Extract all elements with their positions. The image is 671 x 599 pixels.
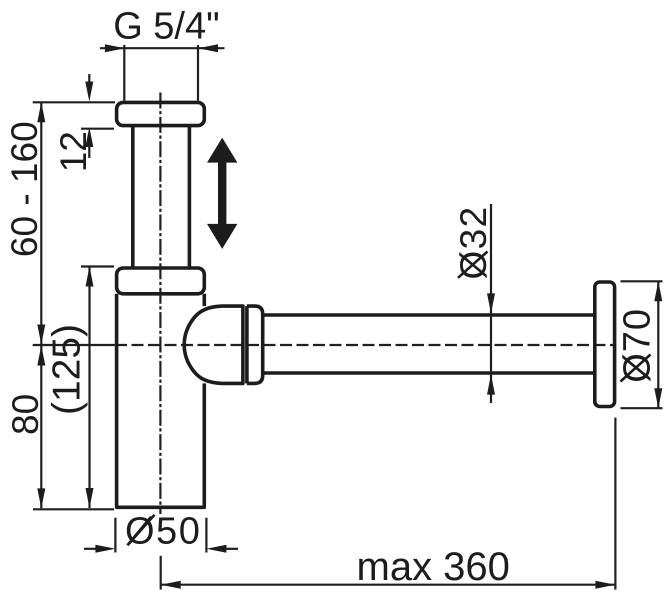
extension line G 5/4 right — [197, 45, 199, 101]
chained dimension line 60-160 / 80 — [37, 102, 45, 508]
svg-text:Ø70: Ø70 — [617, 308, 659, 383]
dimension 12 upper arrow — [85, 74, 93, 102]
dimension line Ø70 — [654, 281, 662, 408]
elbow nut inner line — [245, 306, 249, 383]
extension line G 5/4 left — [123, 45, 125, 101]
dimension line max 360 — [161, 581, 616, 589]
vertical centerline of riser and bottle — [159, 93, 161, 515]
extension line bottle centerline — [160, 556, 162, 590]
extension line at pipe axis — [33, 344, 115, 346]
bottle collar — [117, 268, 205, 294]
adjustment double arrow — [207, 138, 237, 249]
dimension text 12 — [53, 131, 94, 172]
extension line bottle left — [114, 518, 116, 553]
dimension line Ø50 right — [206, 545, 238, 553]
dimension line (125) — [86, 267, 94, 509]
dimension text max 360 — [357, 545, 510, 589]
svg-text:max 360: max 360 — [357, 545, 510, 589]
svg-text:80: 80 — [5, 394, 46, 435]
outlet pipe — [263, 315, 594, 373]
svg-text:60 - 160: 60 - 160 — [4, 121, 45, 257]
horizontal centerline of outlet pipe — [115, 344, 616, 346]
dimension text G 5/4" — [113, 6, 219, 48]
dimension line Ø32 — [487, 204, 495, 403]
svg-text:(125): (125) — [46, 324, 89, 415]
dimension text 60 - 160 — [4, 121, 45, 257]
dimension line G 5/4 — [100, 44, 225, 52]
wall flange (rosette) — [595, 282, 615, 407]
dimension 12 lower arrow — [85, 127, 93, 158]
elbow body — [184, 306, 243, 383]
extension line flange top right — [621, 280, 663, 282]
extension line flange bottom right — [621, 407, 663, 409]
svg-text:Ø50: Ø50 — [125, 511, 201, 553]
dimension text 80 — [5, 394, 46, 435]
svg-text:G 5/4": G 5/4" — [113, 6, 219, 48]
extension line at flange top — [33, 101, 115, 103]
elbow nut body — [247, 306, 263, 383]
dimension text Ø70 — [617, 308, 659, 383]
dimension text Ø50 — [125, 511, 201, 553]
top flange (G 5/4 nut) — [117, 102, 205, 125]
dimension line Ø50 left — [84, 545, 115, 553]
riser pipe — [133, 126, 190, 268]
bottle body — [117, 294, 205, 508]
extension line bottle right — [205, 518, 207, 553]
extension line at bottle bottom — [33, 508, 114, 510]
dimension text (125) — [46, 324, 89, 415]
extension line at flange bottom — [81, 128, 114, 130]
extension line wall flange — [614, 418, 616, 590]
extension line at collar top — [81, 265, 114, 267]
svg-text:Ø32: Ø32 — [453, 206, 494, 280]
dimension text Ø32 — [453, 206, 494, 280]
